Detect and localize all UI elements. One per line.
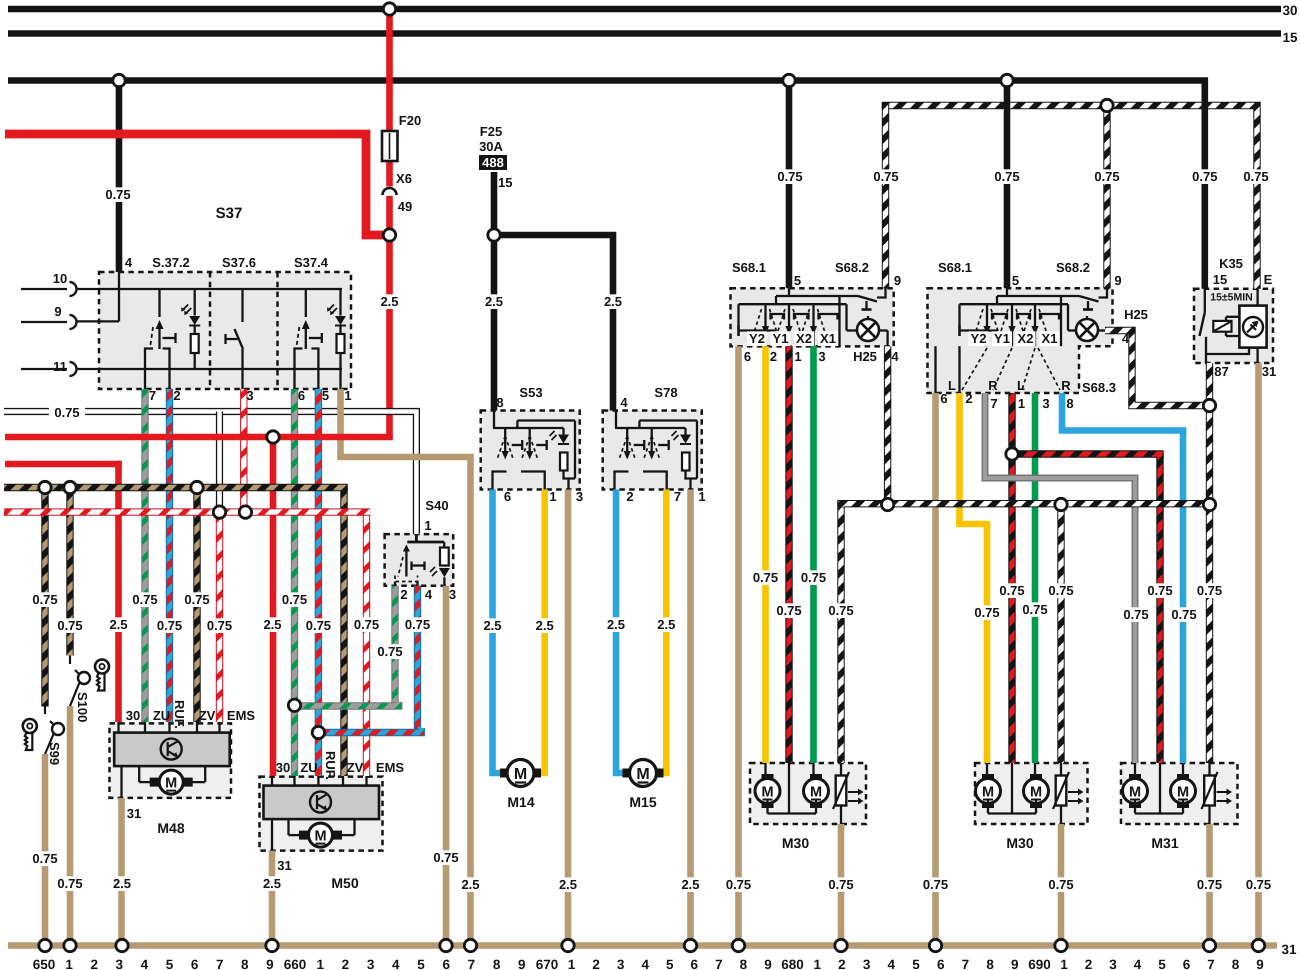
node btan y487 x197 bbox=[191, 481, 203, 493]
svg-text:2: 2 bbox=[626, 489, 633, 504]
wire red horizontal y437 bbox=[5, 434, 390, 437]
svg-text:S99: S99 bbox=[47, 742, 62, 765]
svg-text:ZU: ZU bbox=[153, 708, 170, 723]
wire striped bw drop to S68 left terminal 9 bbox=[882, 103, 889, 288]
wire tan S68R-6 to ground bus bbox=[932, 393, 939, 946]
node black F25 y235 bbox=[488, 229, 500, 241]
svg-text:0.75: 0.75 bbox=[57, 876, 82, 891]
contact detent bbox=[309, 337, 322, 339]
svg-text:0.75: 0.75 bbox=[923, 877, 948, 892]
gauge label 0.75 at 813.5 bbox=[795, 570, 831, 585]
svg-text:H25: H25 bbox=[1124, 307, 1148, 322]
wire striped red/blue S40-4 vertical bbox=[414, 586, 421, 733]
S68.3 linkage dashes bbox=[962, 348, 987, 390]
svg-text:9: 9 bbox=[266, 957, 274, 970]
wire tan S40-3 to ground bus bbox=[443, 586, 450, 946]
wire blue horizontal y430 bbox=[1062, 426, 1183, 435]
svg-text:M: M bbox=[1177, 785, 1189, 801]
gauge label 0.75 at 294.5 bbox=[276, 592, 312, 607]
switch unit S37 box bbox=[99, 272, 351, 389]
gauge label 0.75 at 765.5 bbox=[747, 570, 783, 585]
gauge label 0.75 at 145 bbox=[127, 592, 163, 607]
svg-text:6: 6 bbox=[442, 957, 450, 970]
svg-text:3: 3 bbox=[1109, 957, 1117, 970]
wire striped bw vertical to M31 bbox=[1206, 406, 1213, 764]
svg-text:6: 6 bbox=[940, 391, 947, 406]
label 0.75 on white wire bbox=[49, 405, 85, 420]
LED with arrows bbox=[194, 289, 196, 316]
node bw y503 x1209 bbox=[1203, 498, 1215, 510]
key switch S99 bbox=[44, 707, 46, 715]
gauge label 0.75 at 45 bbox=[27, 851, 63, 866]
node bus3 x1007 bbox=[1001, 74, 1013, 86]
svg-text:3: 3 bbox=[367, 957, 375, 970]
svg-text:2: 2 bbox=[400, 587, 407, 602]
key switch S100 bbox=[69, 656, 71, 665]
svg-text:ZV: ZV bbox=[347, 760, 364, 775]
wire striped black/tan drop to M48 ZV bbox=[193, 488, 200, 723]
svg-text:1: 1 bbox=[568, 957, 576, 970]
wire yellow horizontal y524 bbox=[960, 520, 988, 528]
svg-text:0.75: 0.75 bbox=[32, 851, 57, 866]
gauge label 0.75 at 987 bbox=[969, 605, 1005, 620]
svg-text:4: 4 bbox=[1122, 331, 1130, 346]
svg-text:7: 7 bbox=[674, 489, 681, 504]
svg-text:1: 1 bbox=[344, 388, 351, 403]
wire striped black/tan vertical to M50 ZV bbox=[340, 488, 347, 777]
svg-text:15: 15 bbox=[498, 175, 512, 190]
node ground bus x738.5 bbox=[732, 939, 744, 951]
svg-text:E: E bbox=[1264, 272, 1273, 287]
wire striped bw horizontal y405 bbox=[1132, 401, 1210, 406]
wire striped gray/green S40-2 vertical bbox=[391, 586, 398, 706]
svg-text:5: 5 bbox=[1158, 957, 1166, 970]
wire striped red/white bus y512 bbox=[4, 508, 370, 515]
switch lever bbox=[158, 289, 160, 317]
node btan y487 x45 bbox=[39, 481, 51, 493]
label X1 left bbox=[818, 331, 838, 346]
svg-text:M: M bbox=[1030, 785, 1042, 801]
svg-text:1: 1 bbox=[549, 489, 556, 504]
gauge label 2.5 at 494 bbox=[480, 294, 508, 309]
svg-text:8: 8 bbox=[740, 957, 748, 970]
wire striped red/black S68L-1 to M30 left bbox=[785, 346, 792, 763]
mirror motor M31 box bbox=[1121, 763, 1238, 824]
gauge label 0.75 at 1184 bbox=[1166, 607, 1202, 622]
svg-text:S68.1: S68.1 bbox=[732, 260, 766, 275]
svg-text:2: 2 bbox=[1085, 957, 1093, 970]
svg-text:660: 660 bbox=[284, 957, 307, 970]
svg-text:2: 2 bbox=[965, 391, 972, 406]
gauge label 0.75 at 1061 bbox=[1043, 583, 1079, 598]
wire striped bw ground-switch horizontal y503 bbox=[841, 504, 1210, 507]
S37 terminal 4 drop (thin inner) bbox=[118, 272, 120, 321]
svg-text:3: 3 bbox=[818, 349, 825, 364]
svg-text:0.75: 0.75 bbox=[1192, 169, 1217, 184]
svg-text:S40: S40 bbox=[425, 498, 448, 513]
indicator lamp H25 bbox=[1076, 319, 1098, 341]
mirror switch S68 left box bbox=[731, 288, 894, 346]
svg-text:8: 8 bbox=[1066, 396, 1073, 411]
gauge label 0.75 at 1107 bbox=[1089, 169, 1125, 184]
svg-text:R: R bbox=[1061, 378, 1071, 393]
svg-text:2: 2 bbox=[770, 349, 777, 364]
svg-text:9: 9 bbox=[764, 957, 772, 970]
wire tan M30 right to ground bus bbox=[1058, 824, 1065, 946]
gauge label 0.75 at 366.5 bbox=[348, 617, 384, 632]
gauge label 0.75 at 118 bbox=[100, 187, 136, 202]
resistor bbox=[194, 325, 196, 334]
gauge label 2.5 at 492.5 bbox=[478, 618, 506, 633]
svg-text:9: 9 bbox=[1114, 273, 1121, 288]
wire striped bw drop to M30 right bbox=[1057, 505, 1064, 763]
wire tan S99 to ground bus bbox=[42, 754, 49, 946]
svg-text:0.75: 0.75 bbox=[801, 570, 826, 585]
svg-text:F20: F20 bbox=[399, 113, 421, 128]
node red y437 x273 bbox=[267, 431, 279, 443]
wire striped bw from H25 right down to y405 bbox=[1105, 331, 1132, 406]
LED with arrows bbox=[339, 289, 341, 316]
svg-text:6: 6 bbox=[744, 349, 751, 364]
wire striped red/white drop to M48 EMS bbox=[216, 512, 223, 722]
gauge label 0.75 at 1209.5 bbox=[1191, 877, 1227, 892]
node ground bus x1258.5 bbox=[1252, 939, 1264, 951]
svg-text:Y1: Y1 bbox=[994, 331, 1010, 346]
gauge label 0.75 at 886 bbox=[868, 169, 904, 184]
svg-text:0.75: 0.75 bbox=[828, 603, 853, 618]
gauge label 0.75 at 45 bbox=[27, 592, 63, 607]
thermistor bbox=[840, 763, 842, 776]
svg-text:4: 4 bbox=[125, 255, 133, 270]
gauge label 0.75 at 790 bbox=[772, 169, 808, 184]
svg-text:7: 7 bbox=[149, 388, 156, 403]
wire tan M50 terminal 31 bbox=[269, 851, 276, 946]
svg-text:0.75: 0.75 bbox=[776, 603, 801, 618]
svg-text:5: 5 bbox=[322, 388, 329, 403]
svg-text:8: 8 bbox=[1232, 957, 1240, 970]
wire tan S100 to ground bus bbox=[67, 706, 74, 946]
svg-text:1: 1 bbox=[1018, 396, 1025, 411]
svg-text:6: 6 bbox=[937, 957, 945, 970]
resistor bbox=[339, 325, 341, 334]
gauge label 2.5 at 613 bbox=[599, 294, 627, 309]
svg-text:670: 670 bbox=[536, 957, 559, 970]
svg-text:8: 8 bbox=[493, 957, 501, 970]
wire striped bw vertical to M30 left bbox=[837, 500, 844, 763]
svg-text:1: 1 bbox=[1060, 957, 1068, 970]
wire blue S78-2 to M15 bbox=[616, 490, 629, 774]
svg-text:0.75: 0.75 bbox=[207, 618, 232, 633]
wire striped bw drop to S68 right terminal 9 bbox=[1103, 106, 1110, 289]
gauge label 0.75 at 390 bbox=[372, 644, 408, 659]
node ground bus x1061 bbox=[1055, 939, 1067, 951]
svg-text:7: 7 bbox=[1207, 957, 1215, 970]
wire red drop to M48 terminal 30 bbox=[115, 461, 122, 722]
svg-text:S37.6: S37.6 bbox=[222, 255, 256, 270]
timer relay K35 internals bbox=[1204, 289, 1206, 313]
switch S53 box bbox=[481, 411, 580, 490]
svg-text:0.75: 0.75 bbox=[184, 592, 209, 607]
svg-text:7: 7 bbox=[990, 396, 997, 411]
rocker contact bbox=[626, 428, 628, 436]
wire striped red/blue horizontal y732 bbox=[318, 728, 421, 733]
svg-text:X1: X1 bbox=[820, 331, 836, 346]
svg-text:0.75: 0.75 bbox=[57, 618, 82, 633]
node ground bus x690.5 bbox=[684, 939, 696, 951]
gauge label 0.75 at 446 bbox=[428, 850, 464, 865]
wire striped red/black vertical to M31 bbox=[1156, 454, 1163, 763]
wire striped red/blue S37-5 to M50 RUF with node 318 bbox=[315, 389, 322, 776]
svg-text:S68.3: S68.3 bbox=[1082, 380, 1116, 395]
label X2 left bbox=[794, 331, 814, 346]
svg-text:3: 3 bbox=[576, 489, 583, 504]
node ground bus x470.5 bbox=[464, 939, 476, 951]
node ground bus x935.5 bbox=[929, 939, 941, 951]
svg-text:0.75: 0.75 bbox=[1048, 877, 1073, 892]
wire tan M31 to ground bus bbox=[1206, 824, 1213, 946]
wire striped black/tan drop S100 bbox=[66, 488, 73, 656]
svg-text:30: 30 bbox=[276, 760, 290, 775]
svg-text:K35: K35 bbox=[1219, 256, 1243, 271]
svg-text:H25: H25 bbox=[853, 349, 877, 364]
node gg x294 y705 bbox=[288, 699, 300, 711]
wire green S68L-3 to M30 left bbox=[810, 346, 817, 763]
svg-text:M50: M50 bbox=[331, 875, 358, 891]
feed rails bbox=[788, 288, 790, 296]
relay blade from terminal 9 bbox=[877, 288, 886, 297]
svg-text:2.5: 2.5 bbox=[109, 617, 127, 632]
switch S40 box bbox=[385, 534, 454, 586]
svg-text:680: 680 bbox=[781, 957, 804, 970]
wire striped black/tan bus y487 bbox=[4, 484, 348, 491]
mirror motor M30 right box bbox=[975, 763, 1088, 824]
svg-text:0.75: 0.75 bbox=[777, 169, 802, 184]
wire black drop to S68 left terminal 5 bbox=[786, 81, 793, 289]
wire striped gray/green horizontal y706 bbox=[295, 702, 399, 706]
svg-text:10: 10 bbox=[53, 271, 67, 286]
svg-text:1: 1 bbox=[65, 957, 73, 970]
svg-text:4: 4 bbox=[425, 587, 433, 602]
S37 terminal 9 lead and hook bbox=[21, 321, 67, 323]
svg-text:2: 2 bbox=[592, 957, 600, 970]
svg-text:30A: 30A bbox=[479, 139, 503, 154]
svg-text:4: 4 bbox=[641, 957, 649, 970]
mirror switch S68 right box (with S68.3 extension) bbox=[928, 288, 1113, 393]
svg-text:2.5: 2.5 bbox=[681, 877, 699, 892]
svg-text:2.5: 2.5 bbox=[604, 294, 622, 309]
svg-text:2: 2 bbox=[342, 957, 350, 970]
relay blade from terminal 9 bbox=[1099, 288, 1108, 297]
label Y1 right bbox=[992, 331, 1012, 346]
svg-text:EMS: EMS bbox=[227, 708, 256, 723]
svg-text:0.75: 0.75 bbox=[994, 169, 1019, 184]
node btan y487 x70 bbox=[64, 481, 76, 493]
wire striped black/tan drop S99 bbox=[41, 488, 48, 707]
gauge label 0.75 at 1007 bbox=[989, 169, 1025, 184]
wire tan M30 left to ground bus bbox=[838, 824, 845, 946]
svg-text:8: 8 bbox=[496, 395, 503, 410]
svg-text:2.5: 2.5 bbox=[607, 617, 625, 632]
mirror motor M30 right internals bbox=[982, 774, 994, 783]
svg-text:6: 6 bbox=[298, 388, 305, 403]
svg-text:L: L bbox=[1017, 378, 1025, 393]
svg-text:M: M bbox=[314, 829, 326, 845]
gauge label 0.75 at 318.4 bbox=[300, 618, 336, 633]
svg-text:0.75: 0.75 bbox=[54, 405, 79, 420]
feed rails bbox=[1006, 288, 1008, 296]
svg-text:0.75: 0.75 bbox=[377, 644, 402, 659]
svg-text:M15: M15 bbox=[629, 794, 656, 810]
washer pump motor M15 bbox=[623, 769, 632, 778]
gauge label 0.75 at 789 bbox=[771, 603, 807, 618]
svg-text:2.5: 2.5 bbox=[113, 876, 131, 891]
svg-text:0.75: 0.75 bbox=[828, 877, 853, 892]
svg-text:6: 6 bbox=[1183, 957, 1191, 970]
gauge label 0.75 at 169.5 bbox=[151, 618, 187, 633]
svg-text:9: 9 bbox=[1256, 957, 1264, 970]
wire tan S53-3 to ground bus bbox=[565, 490, 572, 946]
pilot LED and resistor bbox=[562, 428, 564, 435]
svg-text:690: 690 bbox=[1028, 957, 1051, 970]
svg-text:6: 6 bbox=[191, 957, 199, 970]
contact detent bbox=[163, 337, 176, 339]
label Y2 right bbox=[968, 331, 988, 346]
mirror motor M30 left internals bbox=[762, 774, 774, 783]
svg-text:0.75: 0.75 bbox=[1197, 877, 1222, 892]
gauge label 0.75 at 1061 bbox=[1043, 877, 1079, 892]
svg-text:488: 488 bbox=[482, 155, 504, 170]
contact legs bbox=[295, 349, 303, 390]
pilot LED and resistor bbox=[684, 428, 686, 435]
indicator lamp H25 bbox=[857, 319, 879, 341]
svg-text:30: 30 bbox=[126, 708, 140, 723]
wire striped red/white vertical to M50 EMS bbox=[363, 512, 370, 776]
washer pump motor M14 bbox=[500, 769, 509, 778]
svg-text:7: 7 bbox=[468, 957, 476, 970]
gauge label 0.75 at 1160 bbox=[1142, 583, 1178, 598]
svg-text:0.75: 0.75 bbox=[354, 617, 379, 632]
svg-text:ZU: ZU bbox=[300, 760, 317, 775]
switch S37.6 internals bbox=[241, 289, 243, 322]
svg-text:R: R bbox=[988, 378, 998, 393]
svg-text:2.5: 2.5 bbox=[380, 294, 398, 309]
wire green S68R-3 to M30 right bbox=[1032, 393, 1039, 763]
gauge label 2.5 at 389.5 bbox=[375, 294, 403, 309]
svg-text:0.75: 0.75 bbox=[32, 592, 57, 607]
svg-text:15±5MIN: 15±5MIN bbox=[1210, 292, 1253, 304]
wire red drop node 273 to M50 terminal 30 bbox=[270, 437, 277, 776]
svg-text:5: 5 bbox=[912, 957, 920, 970]
svg-text:1: 1 bbox=[316, 957, 324, 970]
svg-text:0.75: 0.75 bbox=[1147, 583, 1172, 598]
svg-text:RUF.: RUF. bbox=[323, 751, 338, 780]
gauge label 0.75 at 1258.5 bbox=[1240, 877, 1276, 892]
gauge label 0.75 at 935.5 bbox=[917, 877, 953, 892]
svg-text:87: 87 bbox=[1214, 364, 1228, 379]
node rw y512 x219 bbox=[213, 506, 225, 518]
wire striped red/black S68R-1 to M30 right bbox=[1008, 393, 1015, 763]
svg-text:S37.4: S37.4 bbox=[294, 255, 329, 270]
svg-text:2.5: 2.5 bbox=[559, 877, 577, 892]
feed stub and buses bbox=[615, 411, 617, 429]
rocker contact bbox=[529, 428, 531, 436]
svg-text:S68.1: S68.1 bbox=[938, 260, 972, 275]
svg-text:M: M bbox=[761, 785, 773, 801]
svg-text:M: M bbox=[514, 766, 527, 783]
svg-text:Y2: Y2 bbox=[749, 331, 765, 346]
svg-text:6: 6 bbox=[691, 957, 699, 970]
svg-text:1: 1 bbox=[794, 349, 801, 364]
ignition feed bus (third) with drop to K35 terminal 15 bbox=[8, 81, 1205, 289]
lock motor M48 internals bbox=[114, 733, 230, 767]
switch lever bbox=[305, 289, 307, 317]
node striped y105 x1107 bbox=[1101, 99, 1113, 111]
wire tan M48 terminal 31 bbox=[118, 798, 125, 946]
node ground bus x272 bbox=[266, 939, 278, 951]
wire tan S37-1 over to ground bus bbox=[341, 389, 471, 946]
solenoid positions bbox=[986, 304, 988, 306]
svg-text:M: M bbox=[636, 766, 649, 783]
label Y1 left bbox=[770, 331, 790, 346]
svg-text:4: 4 bbox=[891, 349, 899, 364]
svg-text:4: 4 bbox=[1134, 957, 1142, 970]
svg-text:9: 9 bbox=[518, 957, 526, 970]
svg-text:1: 1 bbox=[424, 518, 431, 533]
svg-text:2.5: 2.5 bbox=[263, 617, 281, 632]
wire yellow S68R-2 verticals bbox=[956, 393, 963, 524]
wire tan K35 terminal 31 to ground bus bbox=[1255, 363, 1262, 946]
svg-text:5: 5 bbox=[417, 957, 425, 970]
svg-text:3: 3 bbox=[617, 957, 625, 970]
svg-text:2.5: 2.5 bbox=[536, 618, 554, 633]
thermistor bbox=[1208, 763, 1210, 776]
S37 terminal 11 lead and hook bbox=[21, 368, 67, 370]
svg-text:7: 7 bbox=[216, 957, 224, 970]
S37 terminal 10 lead and hook bbox=[21, 288, 67, 290]
svg-text:0.75: 0.75 bbox=[105, 187, 130, 202]
svg-text:2.5: 2.5 bbox=[657, 617, 675, 632]
svg-text:M: M bbox=[1129, 785, 1141, 801]
door lock motor unit M48 box bbox=[110, 723, 232, 798]
svg-text:2.5: 2.5 bbox=[483, 618, 501, 633]
node ground bus x568 bbox=[562, 939, 574, 951]
gauge label 2.5 at 122 bbox=[108, 876, 136, 891]
gauge label 0.75 at 738.5 bbox=[720, 877, 756, 892]
gauge label 0.75 at 197 bbox=[179, 592, 215, 607]
wire tan S78-1 to ground bus bbox=[687, 490, 694, 946]
svg-text:S78: S78 bbox=[654, 385, 677, 400]
wire white W1 to S40 terminal 1 bbox=[4, 412, 416, 535]
gauge label 0.75 at 417.5 bbox=[399, 617, 435, 632]
svg-text:0.75: 0.75 bbox=[1171, 607, 1196, 622]
wire black drop to S68 right terminal 5 bbox=[1004, 81, 1011, 289]
svg-text:X2: X2 bbox=[1018, 331, 1034, 346]
svg-text:0.75: 0.75 bbox=[753, 570, 778, 585]
svg-text:X6: X6 bbox=[396, 171, 412, 186]
svg-text:15: 15 bbox=[1282, 30, 1298, 45]
mirror motor M31 internals bbox=[1129, 774, 1141, 783]
contact legs bbox=[145, 349, 153, 390]
bus 15 bbox=[8, 30, 1281, 37]
lock motor M50 internals bbox=[264, 786, 380, 820]
wire yellow S53-1 to M14 bbox=[536, 490, 545, 774]
svg-text:2.5: 2.5 bbox=[485, 294, 503, 309]
wire black F25 down and over to S53 / S78 bbox=[491, 172, 498, 411]
svg-text:0.75: 0.75 bbox=[1048, 583, 1073, 598]
svg-text:S68.2: S68.2 bbox=[1056, 260, 1090, 275]
svg-text:0.75: 0.75 bbox=[132, 592, 157, 607]
wire red feeder y134 joining node at 389,235 bbox=[5, 134, 390, 235]
